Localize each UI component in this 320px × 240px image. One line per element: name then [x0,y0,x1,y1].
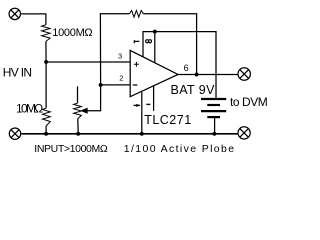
op-amp plus sign [134,62,139,67]
pin8 lead wire [154,32,156,63]
feedback right leg wire [143,14,196,75]
svg-text:2: 2 [119,74,123,83]
junction rail-battery [212,132,216,136]
wire node A to pin3 [46,61,130,63]
junction output node [195,73,199,77]
terminal J2 bottom-left [9,128,20,139]
junction rail-pot [76,132,80,136]
svg-text:BAT 9V: BAT 9V [171,83,216,97]
potentiometer VR1 bottom lead [77,119,79,134]
wiper wire to pin2 node [87,85,101,111]
svg-text:INPUT>1000MΩ: INPUT>1000MΩ [34,143,108,155]
wire R2 to ground rail [45,126,47,134]
battery BT1 plate long top [201,98,226,100]
junction pin2 node [99,83,103,87]
wire node A down to R2 [45,62,47,108]
terminal J3 top-right [238,68,250,80]
junction pin7-pin8 [153,30,157,34]
pin1 stub wire [153,86,155,111]
op-amp U1 triangle [130,50,178,96]
pin7 lead wire [143,32,216,99]
battery BT1 plate short bottom [207,116,220,118]
junction rail-R2 [44,132,48,136]
terminal J4 bottom-right [238,127,250,139]
pin label 1 rotated [146,103,150,105]
svg-text:1000MΩ: 1000MΩ [52,27,92,39]
potentiometer VR1 zigzag [74,103,82,119]
pin label 8 rotated [146,40,152,43]
pin label 7 rotated [134,40,139,43]
potentiometer wiper arrow [82,109,87,113]
op-amp minus sign [133,84,138,86]
resistor R1 1000M zigzag [42,25,51,42]
svg-text:10MΩ: 10MΩ [16,102,43,116]
svg-text:1/100 Active Plobe: 1/100 Active Plobe [124,143,236,155]
terminal J1 top-left [9,8,20,19]
svg-text:6: 6 [184,63,189,73]
pin label 4 rotated [134,104,141,107]
resistor R3 feedback zigzag [129,11,143,18]
pin4 lead wire [141,91,143,134]
wire top-left to R1 [21,14,46,25]
potentiometer VR1 top stub [77,86,79,103]
feedback left leg wire [100,14,129,85]
svg-text:to DVM: to DVM [230,95,268,109]
svg-text:3: 3 [118,52,122,61]
battery bottom lead [214,118,216,134]
junction rail-pin4 [140,132,144,136]
svg-text:TLC271: TLC271 [144,113,191,127]
resistor R2 10M zigzag [43,108,51,126]
output wire pin6 [178,74,238,76]
node A junction [44,60,48,64]
wire pin2 node to op-amp pin2 [101,84,131,86]
wire R1 to node A [45,41,47,62]
svg-text:HV IN: HV IN [3,65,32,79]
battery BT1 plate long [201,110,226,112]
battery BT1 plate short [207,104,220,106]
ground rail wire [21,133,237,135]
